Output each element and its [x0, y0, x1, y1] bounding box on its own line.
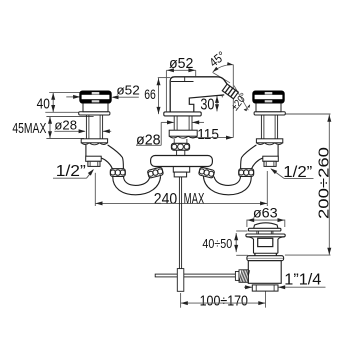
svg-text:40: 40	[37, 96, 50, 113]
svg-text:ø63: ø63	[253, 205, 278, 221]
svg-text:ø28: ø28	[136, 132, 161, 149]
svg-text:100÷170: 100÷170	[200, 292, 248, 309]
svg-text:1/2”: 1/2”	[56, 163, 86, 180]
svg-text:200÷260: 200÷260	[316, 147, 333, 219]
svg-text:115: 115	[197, 127, 219, 143]
svg-text:40÷50: 40÷50	[202, 236, 232, 251]
svg-text:1”1/4: 1”1/4	[284, 272, 321, 289]
svg-text:45MAX: 45MAX	[12, 120, 46, 137]
svg-text:MAX: MAX	[184, 191, 205, 208]
svg-text:240: 240	[154, 191, 178, 208]
svg-text:30: 30	[200, 97, 214, 114]
svg-text:66: 66	[144, 87, 156, 102]
svg-text:ø28: ø28	[54, 118, 77, 133]
svg-text:ø52: ø52	[116, 82, 139, 97]
